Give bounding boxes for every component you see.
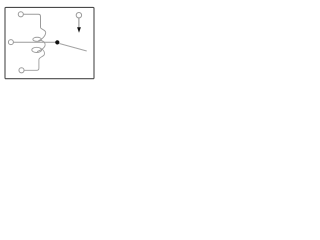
actuation arrow stem <box>78 18 80 28</box>
coil L1 <box>24 28 46 71</box>
junction dot <box>55 40 59 44</box>
actuation arrow head <box>77 27 81 33</box>
tap wire from T2 to junction <box>13 41 55 43</box>
wire from T1 to coil top <box>23 14 40 27</box>
terminal T2 (middle-left) <box>8 40 13 45</box>
terminal T3 (bottom-left) <box>19 68 24 73</box>
wiper lever wire (diagonal) <box>59 44 86 52</box>
terminal T4 (top-right) <box>76 13 81 18</box>
border frame <box>5 7 94 78</box>
terminal T1 (top-left) <box>18 12 23 17</box>
